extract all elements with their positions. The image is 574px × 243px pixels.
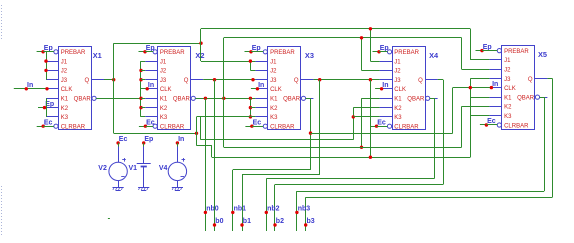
node In label (X2 clock) [141,88,148,90]
wire X5 Q output stub [547,78,552,80]
svg-text:K1: K1 [270,97,278,103]
wire QBAR4 drop x=432.8 [434,98,436,178]
wire corridor y=139.8 to X4 K riser [201,139,354,141]
svg-text:nb1: nb1 [234,205,247,212]
battery V1 [137,147,151,167]
junction X3 J bracket [249,59,252,62]
wire X5 J3 K1 K3 riser x=470.3 [470,79,472,158]
svg-text:Ep: Ep [483,44,492,51]
wire Q5 to b3 horizontal y=197.2 [306,197,553,199]
node In label (X3 clock) [251,88,258,90]
wire Ep to X1 K inputs label stub [38,107,45,109]
svg-text:Q: Q [418,78,423,84]
svg-text:QBAR: QBAR [407,97,425,103]
svg-text:nb3: nb3 [298,205,311,212]
svg-text:J2: J2 [160,69,167,75]
wire X2 K1 stub [141,98,145,100]
wire X2 Q to X3 J3 [203,79,255,81]
wire X3 QBAR stub right [306,98,311,100]
wire corridor jog drop x=211.9 [211,146,213,158]
junction Q3 b1 drop [318,78,321,81]
wire Ep to V1 [143,143,145,147]
ground below V4 [172,181,183,191]
junction X1 J2 [44,69,47,72]
wire X3 J2 stub [250,70,255,72]
wire X4 K2 K3 riser x=353.3 [353,108,355,140]
svg-text:QBAR: QBAR [517,95,535,101]
wire corridor jog y=145.6 [197,145,212,147]
wire b2 column x=275 [274,185,276,232]
voltage source V4 [168,147,186,181]
svg-text:K1: K1 [394,97,402,103]
svg-text:PREBAR: PREBAR [504,49,529,55]
wire corridor y=147.3 QBAR2 to X5 K2 riser [224,147,462,149]
wire X2 JK input tree vertical [140,61,142,117]
svg-text:PREBAR: PREBAR [160,50,185,56]
wire Q4 drop x=443.1 [443,80,445,185]
ground below V2 [113,181,124,191]
wire Ep to X2 PREBAR pin [145,51,153,53]
svg-text:nb0: nb0 [206,205,219,212]
wire X5 K1 feed [470,97,489,99]
junction corridor X4 J2 [360,36,363,39]
svg-text:CLRBAR: CLRBAR [270,125,295,131]
svg-text:Ec: Ec [119,136,128,143]
wire X4 K1 feed [362,98,380,100]
wire Ec to X5 CLRBAR label stub [480,124,487,126]
wire In to X1 CLK [14,88,46,90]
junction Q3 second drop [369,78,372,81]
wire QBAR4 to nb2 horizontal y=178.6 [266,178,434,180]
wire X3 Q to X4 J3 [313,79,379,81]
wire K3 corridor y=116.9 to X3 K bracket [197,116,251,118]
svg-text:K2: K2 [61,106,69,112]
svg-text:J2: J2 [504,68,511,74]
wire feedback top horizontal y=43.2 [114,43,201,45]
junction QBAR3 corridor tap [309,131,312,134]
node In label (X4 clock) [375,88,382,90]
svg-text:J1: J1 [270,59,277,65]
node edge artifact bottom-left [1,186,3,236]
svg-text:X1: X1 [93,51,102,60]
svg-text:CLRBAR: CLRBAR [61,125,86,131]
wire X4 Q output stub [438,79,444,81]
wire Ec to X3 CLRBAR label stub [245,126,252,128]
junction X2 J3 [139,78,142,81]
wire X2 K2 stub [141,107,145,109]
junction X4 K3 [352,115,355,118]
wire X5 K3 feed [470,115,489,117]
voltage source V2 [109,147,127,181]
junction X2 K2 [139,106,142,109]
wire X4 K1 riser x=361.5 [361,98,363,147]
JK flip-flop X3 body [255,47,313,131]
junction X1 CLK pin [45,87,48,90]
wire Q3 drop x=319.7 [319,80,321,175]
junction X1 Q to feedback riser [112,78,115,81]
wire QBAR2 branch vertical x=223.8 [223,38,225,148]
svg-text:Ec: Ec [253,119,262,126]
svg-text:CLK: CLK [504,86,516,92]
wire X5 CLK riser x=452.7 [452,88,454,134]
svg-text:J3: J3 [160,78,167,84]
junction X2 K1 (QBAR1 feed) [139,97,142,100]
svg-text:J2: J2 [61,69,68,75]
wire X2 J3 stub [141,79,145,81]
svg-text:Ec: Ec [377,119,386,126]
junction X3 J3 pin [251,78,254,81]
wire corridor y=37.8 to X4 X5 J2 [224,37,462,39]
svg-text:Ep: Ep [146,45,155,52]
wire X1 QBAR to X2 JK tree [96,98,141,100]
wire X4 QBAR stub [430,98,435,100]
svg-text:CLK: CLK [160,87,172,93]
wire QBAR5 drop x=544.1 [544,97,546,191]
wire Q3 to b1 horizontal y=174.9 [242,174,320,176]
svg-text:nb2: nb2 [267,205,280,212]
svg-text:Ep: Ep [44,45,53,52]
wire b3 column x=305.7 [305,197,307,231]
JK flip-flop X4 body [380,47,438,131]
wire X1 feedback vertical x=113.7 [113,43,115,133]
svg-text:Q: Q [85,78,90,84]
wire Ec to X5 CLRBAR pin [486,124,497,126]
wire X3 K bracket vertical [250,98,252,117]
junction X2 J2 [139,69,142,72]
wire Ep to X1 PREBAR pin [43,51,54,53]
wire b1 column x=242 [242,175,244,231]
wire Q3 second drop x=370.4 [370,80,372,158]
svg-text:X3: X3 [305,51,314,60]
junction X1 J1 [44,59,47,62]
wire X5 J2 drop x=461.6 [461,38,463,69]
wire X2 QBAR to X3 K1 [195,98,255,100]
wire Q4 to b2 horizontal y=184.5 [275,184,443,186]
svg-text:K2: K2 [270,106,278,112]
wire X4 J1 drop x=370.4 [370,29,372,61]
wire Ec to V2 [118,143,120,147]
wire X5 QBAR stub [540,97,545,99]
svg-text:b1: b1 [243,218,251,225]
svg-text:J1: J1 [504,58,511,64]
svg-text:Ec: Ec [146,119,155,126]
svg-text:K3: K3 [504,114,512,120]
svg-text:In: In [27,82,33,89]
JK flip-flop X2 body [145,47,203,131]
wire corridor riser x=196.5 [196,117,198,146]
svg-text:X4: X4 [429,51,439,60]
wire X3 K3 stub [250,116,255,118]
svg-text:J1: J1 [394,59,401,65]
svg-text:b0: b0 [215,218,223,225]
wire X2 K3 stub [141,116,145,118]
wire X4 J2 feed [362,70,380,72]
wire Ec to X2 CLRBAR label stub [139,126,146,128]
svg-text:X2: X2 [195,51,204,60]
svg-text:V4: V4 [159,165,168,172]
svg-text:Ep: Ep [252,45,261,52]
wire X2 J2 stub [141,70,145,72]
junction X3 K2 [249,106,252,109]
ground below V1 [138,167,149,190]
wire nb0 column x=205.4 (QBAR2) [205,98,207,231]
wire corridor y=157 to X5 [212,157,470,159]
svg-text:K2: K2 [160,106,168,112]
svg-text:PREBAR: PREBAR [61,50,86,56]
svg-text:V2: V2 [98,165,107,172]
svg-text:In: In [148,82,154,89]
wire X5 J2 feed [462,69,490,71]
svg-text:J2: J2 [394,69,401,75]
wire top corridor y=28.8 to X4 X5 [201,28,470,30]
JK flip-flop X1 body [46,47,104,131]
wire X3 J1-J2 bracket [250,61,252,70]
svg-text:J3: J3 [394,78,401,84]
junction top corridor tap [199,42,202,45]
wire b0 column x=214.5 (Q2) [214,80,216,231]
svg-text:K3: K3 [61,115,69,121]
svg-text:K3: K3 [394,115,402,121]
wire X4 K2 feed [353,107,379,109]
svg-text:K1: K1 [61,97,69,103]
JK flip-flop X5 body [489,46,547,130]
svg-text:QBAR: QBAR [173,97,191,103]
junction K1 riser corridor [360,146,363,149]
wire Q5 drop x=552.4 [552,79,554,198]
junction X3 K3 corridor feed [249,115,252,118]
wire X4 K3 feed [353,116,379,118]
wire QBAR5 to nb3 horizontal y=191.1 [297,191,544,193]
svg-text:CLRBAR: CLRBAR [394,125,419,131]
wire Ep to X4 PREBAR label stub [373,51,380,53]
wire QBAR3 to nb1 horizontal y=169.9 [233,169,311,171]
svg-text:K3: K3 [160,115,168,121]
svg-text:In: In [258,82,264,89]
wire corridor drop x=200.7 [200,117,202,140]
svg-text:J1: J1 [61,59,68,65]
svg-text:PREBAR: PREBAR [394,50,419,56]
svg-text:CLK: CLK [61,87,73,93]
wire X5 CLK feed [453,87,490,89]
svg-text:In: In [178,136,184,143]
wire nb3 column x=296.9 [296,191,298,231]
svg-text:b3: b3 [307,218,315,225]
junction X3 K bracket top [249,97,252,100]
wire corridor riser x=201 [200,29,202,61]
wire feedback to corridor y=133.3 [114,133,197,135]
svg-text:K2: K2 [394,106,402,112]
node edge artifact top-left [1,5,3,40]
svg-text:PREBAR: PREBAR [270,50,295,56]
wire Ep to X2 PREBAR label stub [139,51,146,53]
svg-text:J2: J2 [270,69,277,75]
wire Ec to X1 CLRBAR label stub [37,126,44,128]
svg-text:K1: K1 [504,95,512,101]
junction CLK riser cross [469,86,472,89]
wire Ec to X3 CLRBAR pin [252,126,263,128]
svg-text:Ec: Ec [44,119,53,126]
wire X5 J1 drop x=470.3 [470,29,472,60]
wire Ec to X4 CLRBAR label stub [370,126,377,128]
svg-text:V1: V1 [129,165,138,172]
wire X2 J1 stub [141,61,145,63]
wire QBAR3 drop x=310.5 [310,98,312,170]
junction QBAR2 branch riser [222,97,225,100]
junction QBAR2 nb0 drop [204,97,207,100]
wire X3 K2 stub [250,107,255,109]
junction corridor x=196.5 [195,132,198,135]
wire X4 J1 feed [370,61,379,63]
wire In to V4 [177,143,179,147]
svg-text:Ep: Ep [380,45,389,52]
wire nb2 column x=266.3 [266,179,268,231]
junction corridor X4 J1 [369,27,372,30]
svg-text:b2: b2 [276,218,284,225]
wire nb1 column x=232.8 [232,170,234,231]
wire X1 K tree vertical (K1 K2 K3) [46,98,48,117]
svg-text:In: In [382,82,388,89]
svg-text:K1: K1 [160,97,168,103]
svg-text:CLRBAR: CLRBAR [504,123,529,129]
wire X1 Q output [104,79,114,81]
svg-text:K2: K2 [504,105,512,111]
svg-text:CLK: CLK [394,87,406,93]
wire X5 K2 riser x=461.6 [461,106,463,147]
svg-text:Q: Q [294,78,299,84]
wire X5 J1 feed [470,59,489,61]
junction X2 Q b0 drop [213,78,216,81]
wire Ep to X3 PREBAR pin [251,51,263,53]
svg-text:CLRBAR: CLRBAR [160,125,185,131]
svg-text:J3: J3 [270,78,277,84]
svg-text:Q: Q [528,77,533,83]
wire X1 J tree vertical (Ep to J1 J2 J3) [46,52,48,80]
wire X5 K2 feed [462,106,490,108]
wire X4 J2 drop x=361.5 [361,38,363,71]
wire Ep to X4 PREBAR pin [379,51,387,53]
svg-text:QBAR: QBAR [74,97,92,103]
svg-text:In: In [492,81,498,88]
wire Ep to X5 PREBAR label stub [476,50,483,52]
wire corridor y=132.6 QBAR3 to X5 CLK riser [311,133,453,135]
svg-text:Ep: Ep [144,136,153,143]
wire Ec to X2 CLRBAR pin [145,126,153,128]
svg-text:J1: J1 [160,59,167,65]
svg-text:J3: J3 [504,77,511,83]
wire stray speck [108,218,110,220]
wire X3 J1 feed horizontal [201,61,255,63]
wire X5 J3 feed [470,78,489,80]
svg-text:K3: K3 [270,115,278,121]
svg-text:QBAR: QBAR [283,97,301,103]
wire Ep to X5 PREBAR pin [482,50,497,52]
svg-text:CLK: CLK [270,87,282,93]
wire Ep to X3 PREBAR label stub [245,51,252,53]
wire Ep to X1 PREBAR label stub [37,51,44,53]
svg-text:X5: X5 [538,50,547,59]
svg-text:Q: Q [184,78,189,84]
junction Q3 drop on corridor [369,156,372,159]
wire Ec to X4 CLRBAR pin [377,126,388,128]
node In label (X5 clock) [485,87,492,89]
wire Ec to X1 CLRBAR pin [43,126,54,128]
svg-text:J3: J3 [61,78,68,84]
